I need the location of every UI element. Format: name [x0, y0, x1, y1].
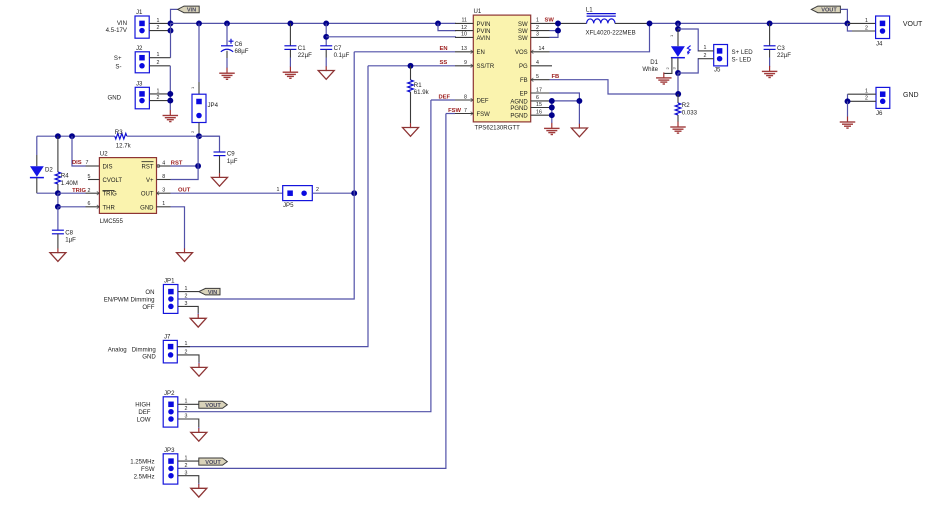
svg-text:J2: J2 [136, 45, 143, 52]
svg-text:2: 2 [536, 25, 539, 31]
node OUT/EN junction [351, 190, 357, 196]
svg-text:J3: J3 [136, 80, 143, 87]
svg-text:VIN: VIN [187, 8, 196, 14]
svg-text:6: 6 [88, 201, 91, 207]
svg-text:C6: C6 [235, 41, 243, 48]
wire J6 pin2 [848, 100, 877, 102]
wire J4 pin2 stub [852, 30, 876, 32]
svg-text:1: 1 [704, 45, 707, 51]
wire S+ sense to J5 pin1 [678, 29, 699, 51]
svg-text:68µF: 68µF [235, 48, 249, 55]
svg-text:C3: C3 [777, 45, 785, 52]
pin stub U2 DIS [86, 165, 100, 167]
svg-text:1: 1 [277, 187, 280, 193]
pin stub U1 pin15 PGND [531, 107, 550, 109]
pin arrow marks U2 [97, 165, 160, 209]
svg-text:PGND: PGND [510, 106, 528, 112]
pin stub J5 pin1 [698, 50, 714, 52]
wire cathode to R2 [677, 73, 679, 94]
pin stub U2 THR [86, 206, 100, 208]
svg-text:SW: SW [545, 18, 555, 24]
wire R2 top lead [677, 94, 679, 103]
svg-text:1.25MHz: 1.25MHz [130, 459, 154, 466]
power flag VOUT (JP2) [199, 401, 228, 409]
wire J6 ground lead [847, 101, 849, 116]
node PGND16 junction [549, 112, 555, 118]
svg-text:OFF: OFF [142, 304, 154, 311]
wire SW3 up [550, 23, 559, 37]
svg-text:GND: GND [142, 354, 156, 361]
wire C3 top lead [769, 23, 771, 45]
wire C8 bottom lead [57, 234, 59, 249]
svg-text:J1: J1 [136, 9, 143, 16]
wire L1 right stub [615, 22, 650, 24]
label Analog Dimming / GND [108, 346, 157, 360]
svg-text:4.5-17V: 4.5-17V [106, 27, 128, 34]
svg-text:Analog Dimming: Analog Dimming [108, 346, 156, 353]
wire EP to ground [550, 93, 580, 124]
wire V+ branch [171, 136, 199, 179]
svg-text:10: 10 [461, 32, 467, 38]
svg-text:2: 2 [185, 463, 188, 469]
pin stub U1 pin3 SW [531, 36, 550, 38]
ground earth below PGND [544, 123, 560, 135]
svg-text:0.1µF: 0.1µF [334, 52, 350, 59]
svg-text:PVIN: PVIN [477, 29, 491, 35]
wire R4 top lead [57, 136, 59, 172]
svg-text:EN: EN [440, 46, 448, 52]
node TRIG junction [55, 190, 61, 196]
svg-text:V+: V+ [146, 178, 154, 184]
resistor R3 [115, 129, 132, 150]
wire SS vertical [177, 66, 368, 347]
wire TRIG-THR vertical [57, 193, 59, 207]
svg-text:JP3: JP3 [164, 447, 175, 454]
svg-text:12.7k: 12.7k [116, 143, 132, 150]
node S+ sense junction [675, 26, 681, 32]
svg-text:6: 6 [536, 95, 539, 101]
power flag VIN (JP1) [199, 288, 220, 296]
wire VOS [550, 23, 650, 51]
svg-text:2.5MHz: 2.5MHz [134, 473, 155, 480]
node THR junction [55, 204, 61, 210]
pin stub U1 pin4 PG [531, 65, 552, 67]
capacitor C3 [764, 45, 792, 59]
svg-text:AGND: AGND [510, 99, 528, 105]
svg-text:VOS: VOS [515, 50, 528, 56]
svg-text:1: 1 [536, 18, 539, 24]
node J6 junction [845, 98, 851, 104]
node AVIN tap junction [323, 34, 329, 40]
node C7 junction [323, 20, 329, 26]
svg-text:VOUT: VOUT [821, 8, 837, 14]
svg-text:D2: D2 [45, 167, 53, 174]
wire J3 pin1 [149, 93, 170, 95]
svg-text:C8: C8 [65, 229, 73, 236]
ground earth below J6 [840, 117, 856, 129]
svg-text:5: 5 [88, 174, 91, 180]
wire RST to V+ node [171, 165, 199, 167]
svg-text:SS: SS [440, 60, 448, 66]
pin stub U1 pin5 FB [531, 79, 550, 81]
svg-text:15: 15 [536, 102, 542, 108]
svg-text:DIS: DIS [72, 160, 82, 166]
wire J2 pin2 [149, 65, 170, 67]
wire C1 bottom lead [289, 49, 291, 57]
wire VIN rail (top) [171, 22, 457, 24]
wire DEF row to U1 [431, 99, 455, 101]
wire J7 pin1 [177, 346, 190, 348]
wire R4 bottom lead [57, 184, 59, 193]
ground triangle below J7 [191, 363, 207, 376]
svg-text:CVOLT: CVOLT [103, 178, 123, 184]
wire R2 bottom lead [677, 115, 679, 122]
svg-text:9: 9 [464, 60, 467, 66]
power flag VOUT (JP3) [199, 458, 228, 466]
capacitor C6 (polarized) [221, 39, 249, 55]
wire J3 pin2 [149, 100, 170, 102]
svg-text:White: White [642, 66, 658, 73]
jumper JP3 [163, 447, 187, 484]
wire J7 pin2 to ground [177, 355, 199, 362]
ground triangle below EP [571, 124, 587, 137]
wire C9 lead from junction [199, 136, 220, 152]
ground triangle below JP1 [190, 314, 206, 327]
svg-text:JP1: JP1 [164, 278, 175, 285]
connector J6 [865, 87, 890, 117]
connector J4 [865, 16, 890, 47]
svg-text:0.033: 0.033 [682, 110, 698, 117]
ground earth below C6 [219, 68, 235, 80]
wire EN vertical [178, 52, 354, 299]
label S+ LED / S- LED [732, 49, 754, 64]
node FB junction [675, 91, 681, 97]
node SW junction 2 [555, 28, 561, 34]
node RST junction [195, 163, 201, 169]
svg-text:GND: GND [140, 205, 154, 211]
wire JP4 upper stem [198, 23, 200, 82]
svg-text:13: 13 [461, 46, 467, 52]
svg-text:1: 1 [162, 201, 165, 207]
inductor L1 [586, 7, 636, 37]
svg-text:7: 7 [86, 160, 89, 166]
wire S- sense to J5 pin2 [678, 59, 699, 73]
LED D1 [642, 46, 690, 74]
node J1 pin1 junction [168, 20, 174, 26]
svg-text:VIN: VIN [208, 290, 217, 296]
svg-text:TRIG: TRIG [103, 192, 118, 198]
svg-text:PGND: PGND [510, 114, 528, 120]
wire SW1 to L1 [550, 22, 587, 24]
svg-text:U2: U2 [100, 151, 108, 158]
capacitor C9 [214, 150, 238, 164]
wire VIN flag stem [171, 9, 178, 23]
ground triangle below JP2 [191, 428, 207, 441]
svg-text:S- LED: S- LED [732, 56, 752, 63]
wire C7 bottom lead [325, 49, 327, 57]
ground triangle below U2 GND [177, 248, 193, 261]
pin stub U2 CVOLT [88, 179, 99, 181]
svg-text:J6: J6 [876, 110, 883, 117]
jumper JP1 [163, 278, 187, 314]
wire R3 row left [37, 135, 115, 137]
wire FB net [550, 80, 679, 94]
pin stub U1 pin6 AGND [531, 100, 550, 102]
wire C8 top lead [57, 207, 59, 230]
node JP4/C9 junction [196, 133, 202, 139]
svg-text:R2: R2 [682, 102, 690, 109]
pin stub U1 pin2 SW [531, 30, 550, 32]
wire TRIG row [58, 192, 86, 194]
svg-text:C9: C9 [227, 150, 235, 157]
wire GND to ground [171, 207, 185, 249]
capacitor C7 [320, 45, 349, 59]
svg-text:R3: R3 [115, 129, 123, 136]
svg-text:AVIN: AVIN [477, 36, 491, 42]
wire DIS drop [72, 136, 86, 166]
wire FSW vertical [178, 114, 446, 469]
svg-text:1µF: 1µF [65, 237, 76, 244]
node R4 top junction [55, 133, 61, 139]
svg-text:2: 2 [316, 187, 319, 193]
svg-text:SW: SW [518, 36, 528, 42]
svg-text:EN/PWM Dimming: EN/PWM Dimming [104, 296, 155, 303]
svg-text:2: 2 [665, 67, 670, 70]
wire C6 top lead [226, 23, 228, 45]
pin stub U1 pin1 SW [531, 22, 550, 24]
svg-text:J4: J4 [876, 40, 883, 47]
ground earth below J3 [163, 110, 179, 122]
svg-text:12: 12 [461, 25, 467, 31]
svg-text:R1: R1 [414, 82, 422, 89]
svg-text:14: 14 [539, 46, 545, 52]
ground earth below C1 [283, 67, 299, 79]
svg-text:S+ LED: S+ LED [732, 49, 754, 56]
svg-text:22µF: 22µF [777, 52, 791, 59]
wire JP1 pin3 to ground [178, 306, 198, 313]
op-amp U2 LMC555 body [99, 151, 156, 225]
pin stub U2 RST [157, 165, 171, 167]
svg-text:4: 4 [162, 160, 165, 166]
svg-text:R4: R4 [61, 172, 69, 179]
svg-text:SW: SW [518, 22, 528, 28]
svg-text:JP5: JP5 [283, 202, 294, 209]
wire LED cathode pin3 [677, 58, 679, 73]
capacitor C1 [284, 45, 312, 59]
label ON / EN-PWM Dimming / OFF [104, 289, 155, 311]
label HIGH / DEF / LOW [135, 402, 151, 424]
svg-text:2: 2 [865, 25, 868, 31]
wire J4 pin1 [847, 22, 875, 24]
resistor R1 [408, 80, 430, 96]
node C1 junction [287, 20, 293, 26]
svg-text:C1: C1 [298, 45, 306, 52]
pin stub U2 OUT [157, 192, 171, 194]
wire PGND vertical [551, 101, 553, 123]
svg-text:FB: FB [520, 78, 528, 84]
wire J2 pin1 [149, 57, 170, 59]
node PGND15 junction [549, 105, 555, 111]
svg-text:XFL4020-222MEB: XFL4020-222MEB [586, 30, 636, 37]
wire J6 pin1 [848, 93, 877, 95]
wire LED anode lead [677, 29, 679, 46]
node C3 junction [767, 20, 773, 26]
svg-text:1: 1 [865, 89, 868, 95]
svg-text:JP2: JP2 [164, 390, 175, 397]
wire C7 top lead [325, 23, 327, 45]
wire JP1 pin1 to VIN flag [178, 291, 199, 293]
svg-text:J7: J7 [164, 334, 171, 341]
ground triangle below C9 [212, 173, 228, 186]
svg-text:61.9k: 61.9k [414, 89, 430, 96]
pin stub U2 GND [157, 206, 171, 208]
wire FSW row to U1 [446, 113, 455, 115]
svg-text:C7: C7 [334, 45, 342, 52]
wire JP5 to EN vertical [312, 192, 354, 194]
ground triangle below C8 [50, 248, 66, 261]
svg-text:EP: EP [520, 91, 528, 97]
wire C3 bottom lead [769, 49, 771, 57]
svg-text:1µF: 1µF [227, 158, 238, 165]
wire R3 row right [127, 135, 220, 137]
svg-text:LMC555: LMC555 [100, 218, 124, 225]
node R1 junction [408, 63, 414, 69]
pin stub U1 pin16 PGND [531, 114, 550, 116]
svg-text:1: 1 [190, 86, 195, 89]
ground earth below D1 [656, 72, 672, 84]
node J4 junction [844, 20, 850, 26]
pin stub U1 pin7 FSW [455, 113, 473, 115]
wire SW2 [550, 30, 559, 32]
wire D2 branch vertical [36, 136, 38, 155]
svg-text:VOUT: VOUT [205, 460, 221, 466]
svg-text:D1: D1 [650, 59, 658, 66]
pin stub U2 TRIG [86, 192, 100, 194]
capacitor C8 [52, 229, 76, 243]
wire R1 top lead [410, 66, 412, 80]
wire JP3 pin3 to ground [178, 476, 199, 483]
pin stub U1 pin17 EP [531, 92, 550, 94]
pin stub U1 pin8 DEF [455, 99, 473, 101]
svg-text:VIN: VIN [117, 20, 127, 27]
node PVIN12 drop junction [435, 20, 441, 26]
svg-text:17: 17 [536, 87, 542, 93]
jumper JP4 [192, 94, 219, 122]
svg-text:S-: S- [115, 63, 121, 70]
wire C1 top lead [289, 23, 291, 45]
connector J2 [135, 45, 159, 73]
node cathode junction [675, 70, 681, 76]
wire J6 pin1 drop [847, 94, 849, 101]
svg-text:FSW: FSW [141, 466, 155, 473]
svg-text:2: 2 [190, 130, 195, 133]
wire J2 pin2 to J3 and ground [169, 66, 171, 110]
svg-text:7: 7 [464, 108, 467, 114]
label VIN 4.5-17V [106, 20, 128, 34]
label S+ S- [114, 55, 122, 70]
wire JP3 pin1 to VOUT flag [178, 460, 199, 462]
svg-text:EN: EN [477, 50, 485, 56]
svg-text:DEF: DEF [138, 409, 150, 416]
jumper JP2 [163, 390, 187, 427]
pin stub J5 pin2 [698, 58, 714, 60]
node AGND junction [549, 98, 555, 104]
connector J3 [135, 80, 159, 109]
wire J1 pin2 [149, 30, 170, 32]
svg-text:SW: SW [518, 29, 528, 35]
svg-text:L1: L1 [586, 7, 593, 14]
ground earth below R2 [670, 122, 686, 134]
node VIN rail JP4 junction [196, 20, 202, 26]
svg-text:TPS62130RGTT: TPS62130RGTT [475, 125, 521, 132]
svg-text:22µF: 22µF [298, 52, 312, 59]
pin stub U2 V+ [157, 179, 171, 181]
svg-text:2: 2 [88, 188, 91, 194]
svg-text:2: 2 [185, 406, 188, 412]
svg-text:GND: GND [903, 92, 919, 99]
svg-text:8: 8 [464, 94, 467, 100]
power flag VIN (top) [178, 6, 200, 14]
node D1 junction [675, 20, 681, 26]
connector J7 [163, 334, 187, 363]
wire C6 bottom lead [226, 51, 228, 58]
svg-text:5: 5 [536, 74, 539, 80]
svg-text:THR: THR [103, 205, 116, 211]
svg-text:LOW: LOW [137, 417, 151, 424]
wire EN row to U1 [354, 51, 455, 53]
pin stub U1 pin13 EN [455, 51, 473, 53]
svg-text:TRIG: TRIG [72, 188, 86, 194]
ground triangle below R1 [403, 123, 419, 136]
svg-text:SS/TR: SS/TR [477, 64, 495, 70]
connector J5 [704, 45, 728, 74]
svg-text:3: 3 [162, 188, 165, 194]
pin stub U1 pin9 SS [455, 65, 473, 67]
svg-text:1: 1 [669, 34, 674, 37]
svg-text:U1: U1 [474, 8, 482, 15]
wire AGND [550, 100, 580, 102]
svg-text:PG: PG [519, 64, 528, 70]
ground earth below C3 [762, 66, 778, 78]
wire JP2 pin1 to VOUT flag [178, 403, 199, 405]
jumper JP5 [277, 186, 319, 209]
wire J1 to J2 vertical [170, 23, 172, 57]
wire THR row [58, 206, 86, 208]
wire J1 pin1 [149, 22, 170, 24]
wire PVIN12 drop [438, 23, 456, 30]
svg-text:FSW: FSW [477, 112, 491, 118]
node DIS drop junction [69, 133, 75, 139]
svg-text:JP4: JP4 [208, 102, 219, 109]
node J3 pin2 junction [167, 98, 173, 104]
diode D2 [30, 166, 54, 177]
pin stub U1 pin11 [455, 22, 473, 24]
pin stub U1 pin14 VOS [531, 51, 550, 53]
svg-text:DEF: DEF [477, 98, 489, 104]
wire OUT to JP5 [171, 192, 283, 194]
wire AVIN [326, 36, 456, 38]
ground triangle below JP3 [191, 484, 207, 497]
svg-text:8: 8 [162, 174, 165, 180]
node SW junction 1 [555, 20, 561, 26]
pin stub U1 pin10 [455, 36, 473, 38]
node J3 pin1 junction [167, 91, 173, 97]
wire J4 pin2 [847, 23, 852, 31]
connector J1 [135, 9, 160, 38]
resistor R4 [55, 172, 78, 187]
svg-text:J5: J5 [714, 66, 721, 73]
wire LED cathode pin2 to thermal ground [664, 58, 672, 74]
